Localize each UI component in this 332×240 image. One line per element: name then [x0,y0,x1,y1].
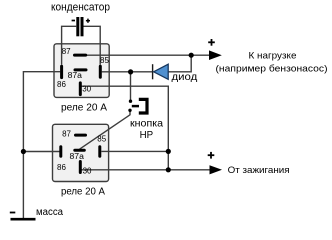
label plus (ignition) [208,152,215,159]
svg-text:87: 87 [62,129,71,138]
relay K1 pin 87 [75,54,86,57]
capacitor polarity minus [72,20,75,22]
relay K1 pin 30 [79,83,82,95]
wire pin87 K1 to load arrow [87,54,211,56]
junction node coil K2 / riser [166,149,171,154]
relay K2 pin 86 [59,147,62,157]
capacitor C1 [78,17,82,36]
relay K2 pin 87 [76,134,86,137]
relay K1 box [54,44,109,98]
junction node ignition wire / riser [166,167,171,172]
ground symbol [11,218,36,221]
wire ground rail [23,72,60,218]
svg-text:85: 85 [100,56,109,65]
svg-text:реле 20 А: реле 20 А [61,102,107,113]
svg-text:86: 86 [57,163,66,172]
relay K2 pin 87a [75,149,85,152]
svg-text:От зажигания: От зажигания [228,165,290,176]
relay K2 pin 30 [79,162,82,173]
relay K1 pin 87a [75,68,86,71]
junction node ground rail / coil K2 [21,149,26,154]
wire button to pin87a K2 [80,112,131,150]
wire pin30 K2 to ignition arrow [81,169,211,171]
pushbutton SB1 contacts [128,100,132,113]
arrow to load [209,50,222,60]
capacitor polarity plus [86,19,90,23]
svg-text:87: 87 [62,47,71,56]
svg-text:конденсатор: конденсатор [51,2,110,14]
svg-text:86: 86 [57,80,66,89]
svg-text:реле 20 А: реле 20 А [61,186,105,197]
relay K2 box [53,124,109,181]
junction node load wire / diode riser [189,53,194,58]
pushbutton SB1 plunger [132,105,139,108]
svg-text:(например бензонасос): (например бензонасос) [216,63,328,73]
junction node diode wire / button [128,69,133,74]
svg-text:К нагрузке: К нагрузке [249,51,297,62]
wire capacitor left lead [62,26,77,65]
svg-text:диод: диод [172,72,198,83]
wire button top lead [130,72,132,100]
ground polarity minus [10,212,16,214]
relay K2 pin 85 [98,147,101,157]
wire rail to coil K2 [23,151,59,153]
wire pin30 K1 to ignition riser [80,86,168,170]
svg-text:30: 30 [83,166,92,175]
svg-text:масса: масса [36,207,63,218]
wire coil K1 to diode [102,71,153,73]
arrow from ignition [210,165,223,174]
wire coil K2 to riser [101,150,168,152]
pushbutton SB1 cap [139,99,147,113]
svg-text:30: 30 [82,85,91,94]
relay K1 pin 85 [99,66,102,77]
svg-text:НР: НР [140,129,154,141]
svg-text:85: 85 [97,134,106,143]
relay K1 pin 86 [60,66,63,77]
svg-text:87а: 87а [68,71,83,80]
svg-text:87а: 87а [70,152,85,161]
label plus (load) [208,39,215,46]
wire diode anode riser [168,55,191,72]
diode VD1 [153,64,169,79]
wire capacitor right lead [84,26,101,64]
